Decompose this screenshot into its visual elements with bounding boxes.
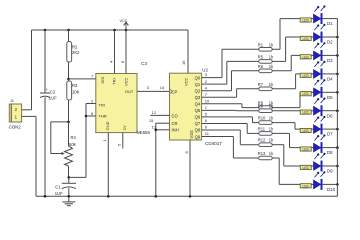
pin name GND inside 555	[105, 121, 110, 130]
LED D2 emission arrows	[314, 24, 325, 30]
label J1	[10, 99, 14, 103]
wire jog riser to LED row D1	[279, 19, 281, 50]
LED D10 diode symbol	[314, 179, 323, 189]
svg-text:C3: C3	[141, 61, 147, 66]
pin number 6	[91, 111, 94, 116]
wire connector pin 1 out	[22, 115, 36, 117]
wire 4017 VSS pin8 to ground rail	[189, 140, 191, 196]
pin number 1	[102, 139, 107, 142]
wire THR feedback horizontal	[69, 176, 86, 178]
svg-text:THR: THR	[99, 114, 107, 119]
svg-text:LED: LED	[302, 111, 309, 115]
wire LED row D10	[279, 183, 314, 185]
node junction C2 on ground rail	[44, 195, 47, 198]
label U2	[202, 68, 208, 73]
pin number 5	[205, 112, 208, 117]
wire C2 down to ground rail	[44, 97, 46, 196]
svg-text:VCC: VCC	[119, 19, 127, 23]
wire 555 pin 4 to VCC rail	[114, 30, 116, 74]
node junction 555 pin4 tap on VCC rail	[113, 29, 116, 32]
svg-text:LED: LED	[302, 37, 309, 41]
label D3	[327, 58, 333, 63]
wire resistor R1 to jog riser	[272, 48, 280, 50]
wire resistor R12 to jog riser	[272, 144, 284, 146]
svg-text:D1: D1	[327, 21, 333, 26]
wire LED row D7	[295, 128, 314, 130]
svg-text:LED: LED	[302, 148, 309, 152]
pin name INH inside 4017	[172, 128, 179, 133]
svg-text:CR: CR	[172, 121, 178, 126]
wire INH pin13	[156, 129, 170, 131]
label D7	[327, 132, 333, 137]
label R5 value 1k	[269, 54, 274, 59]
svg-text:Q5: Q5	[195, 108, 201, 113]
pin name OUT inside 555	[125, 89, 134, 94]
label R8 value 1k	[269, 101, 274, 106]
svg-text:D4: D4	[327, 77, 333, 82]
LED D6 emission arrows	[314, 98, 325, 104]
wire OUT pin3 to 4017 CP pin14	[137, 90, 170, 92]
resistor R2	[67, 42, 72, 63]
pin name Q4 inside 4017	[195, 102, 201, 107]
pin number 9	[205, 125, 208, 130]
LED D3 diode symbol	[314, 50, 323, 60]
label R13	[258, 151, 266, 156]
wire riser Q7 to resistor R11 line	[246, 123, 248, 133]
wire CR/INH tie down to ground rail	[155, 123, 157, 196]
label R7	[258, 82, 264, 87]
node junction C1 on ground rail	[68, 195, 71, 198]
svg-text:D2: D2	[327, 40, 333, 45]
node junction 555 pin8 tap on VCC rail	[125, 29, 128, 32]
counter U2 CD4017 body	[170, 73, 202, 140]
svg-text:R12: R12	[258, 138, 266, 143]
label CD4017	[205, 141, 222, 146]
wire jog riser to LED row D9	[283, 145, 285, 166]
wire jog riser to LED row D10	[278, 158, 280, 184]
LED D7 emission arrows	[314, 116, 325, 122]
svg-text:R3: R3	[72, 83, 78, 88]
op-amp timer U1 NE555 body	[96, 74, 137, 133]
wire LED D5 cathode to bus	[322, 91, 337, 93]
svg-text:D7: D7	[327, 132, 333, 137]
svg-text:16: 16	[181, 60, 186, 65]
label R2 value 2K2	[72, 50, 80, 55]
resistor R9	[259, 109, 272, 113]
svg-text:C1: C1	[55, 184, 61, 189]
wire into resistor R13	[233, 157, 258, 159]
label R12	[258, 138, 266, 143]
pin name Q8 inside 4017	[195, 128, 201, 133]
svg-text:OUT: OUT	[125, 89, 134, 94]
resistor R8	[259, 106, 272, 110]
node junction D9 on cathode bus	[336, 165, 339, 168]
LED D4 emission arrows	[314, 61, 325, 67]
node junction D2 on cathode bus	[336, 36, 339, 39]
connector J1 CON2	[9, 104, 21, 122]
svg-text:J1: J1	[10, 99, 14, 103]
wire riser Q3 to resistor R7 line	[236, 89, 238, 97]
svg-text:50k: 50k	[69, 142, 77, 147]
label R6 value 1k	[269, 64, 274, 69]
svg-text:D6: D6	[327, 113, 333, 118]
node junction 4017 VSS on ground rail	[189, 195, 192, 198]
svg-text:Q7: Q7	[195, 121, 201, 126]
svg-text:LED: LED	[302, 55, 309, 59]
node junction R3/R4/wiper loop	[67, 121, 70, 124]
wire into resistor R1	[222, 48, 259, 50]
wire riser Q6 to resistor R10 line	[252, 117, 254, 123]
pin name THR inside 555	[99, 114, 107, 119]
svg-text:Q3: Q3	[195, 95, 201, 100]
pin number 4	[205, 85, 208, 90]
pin number 8	[120, 60, 125, 63]
pin name Q2 inside 4017	[195, 88, 201, 93]
wire jog riser to LED row D4	[295, 74, 297, 89]
svg-text:R10: R10	[258, 116, 266, 121]
pin name Q1 inside 4017	[195, 82, 201, 87]
pin name CP inside 4017	[170, 89, 178, 94]
wire resistor R8 to jog riser	[272, 107, 300, 109]
wire into resistor R7	[237, 88, 259, 90]
node DIS junction R2/R3/pin7	[67, 78, 70, 81]
label D9	[327, 169, 333, 174]
svg-text:LED: LED	[302, 74, 309, 78]
wire riser Q2 to resistor R6 line	[231, 71, 233, 91]
pin name Q5 inside 4017	[195, 108, 201, 113]
pin name VSS inside 4017	[189, 130, 194, 139]
pin name CO inside 4017	[172, 113, 179, 118]
LED D8 body box	[300, 147, 311, 152]
wire resistor R5 to jog riser	[272, 60, 286, 62]
resistor R5	[259, 60, 272, 64]
node junction D8 on cathode bus	[336, 146, 339, 149]
resistor R10	[259, 121, 272, 125]
svg-text:LED: LED	[302, 19, 309, 23]
resistor R1	[259, 48, 272, 52]
pin number 8 of 4017	[184, 151, 189, 154]
wire into resistor R6	[232, 70, 259, 72]
wire R3 down to R4 top node	[68, 100, 70, 122]
pin name VCC inside 4017	[184, 77, 189, 86]
label C3 designator of NE555	[141, 61, 147, 66]
wire resistor R10 to jog riser	[272, 122, 295, 124]
LED D10 body box	[300, 184, 311, 189]
node junction 555 GND on ground rail	[107, 195, 110, 198]
wire R2 to DIS node	[68, 62, 70, 79]
wire LED row D2	[286, 36, 314, 38]
LED D5 emission arrows	[314, 79, 325, 85]
resistor R6	[259, 69, 272, 73]
LED D9 diode symbol	[314, 161, 323, 171]
node junction D10 on cathode bus	[336, 183, 339, 186]
wire LED row D3	[291, 54, 314, 56]
svg-text:LED: LED	[302, 166, 309, 170]
label R9 value 1k	[269, 104, 274, 109]
wire VCC rail down to connector pin 2	[31, 30, 33, 110]
svg-text:10K: 10K	[72, 89, 80, 94]
svg-text:D3: D3	[327, 58, 333, 63]
LED D8 emission arrows	[314, 134, 325, 140]
label R4	[71, 135, 77, 140]
wire 4017 Q7 output	[202, 122, 248, 124]
svg-text:TRI: TRI	[99, 102, 105, 107]
pin number 12	[152, 110, 157, 115]
wire 4017 Q9 output	[202, 136, 234, 138]
label D10	[327, 187, 336, 192]
capacitor C2 1UF	[40, 87, 50, 97]
svg-text:CD4017: CD4017	[205, 141, 222, 146]
LED D1 body box	[300, 18, 311, 23]
node junction D6 on cathode bus	[336, 109, 339, 112]
pin number 1	[205, 105, 208, 110]
node junction R4/C1/THR feedback	[68, 176, 71, 179]
label C1 value 1UF	[55, 191, 63, 196]
label R8	[258, 101, 264, 106]
svg-text:Q2: Q2	[195, 88, 201, 93]
svg-text:R7: R7	[258, 82, 264, 87]
wire resistor R9 straight to LED D6	[272, 110, 314, 112]
wire LED row D5	[300, 91, 314, 93]
wire 4017 Q8 output	[202, 129, 241, 131]
wire CR pin15	[156, 122, 170, 124]
label R7 value 1k	[269, 82, 274, 87]
wire jog riser to LED row D5	[299, 92, 301, 107]
wire DIS node down to R3	[68, 79, 70, 81]
wire LED D9 cathode to bus	[322, 165, 337, 167]
wire resistor R13 to jog riser	[272, 157, 279, 159]
label D4	[327, 77, 333, 82]
pin number 7	[205, 92, 208, 97]
wire THR feedback riser	[85, 104, 87, 178]
wire into resistor R8	[242, 107, 259, 109]
wire 4017 Q6 output	[202, 116, 253, 118]
wire jog riser to LED row D7	[294, 123, 296, 130]
wire TRI pin 2	[86, 103, 96, 105]
LED D2 diode symbol	[314, 32, 323, 42]
node junction 4017 CR-INH on ground rail	[155, 195, 158, 198]
svg-text:R6: R6	[258, 64, 264, 69]
wire 4017 Q4 output	[202, 103, 242, 105]
wire LED D3 cathode to bus	[322, 54, 337, 56]
wire ground bottom rail	[36, 195, 337, 197]
wire LED row D4	[296, 73, 314, 75]
wire 4017 pin16 to VCC rail	[187, 30, 189, 73]
svg-text:R2: R2	[72, 44, 78, 49]
wire resistor R7 to jog riser	[272, 88, 296, 90]
svg-text:C2: C2	[50, 90, 56, 95]
svg-text:D10: D10	[327, 187, 336, 192]
wire wiper loop left side	[50, 122, 52, 154]
wire CO pin12 stub	[150, 114, 169, 116]
label R5	[258, 54, 264, 59]
LED D2 body box	[300, 36, 311, 41]
label R10 value 1k	[269, 116, 274, 121]
node junction R2 tap on VCC rail	[67, 29, 70, 32]
svg-text:CO: CO	[172, 113, 179, 118]
label D2	[327, 40, 333, 45]
svg-text:D8: D8	[327, 150, 333, 155]
svg-text:LED: LED	[302, 129, 309, 133]
pin name Q3 inside 4017	[195, 95, 201, 100]
node junction D4 on cathode bus	[336, 73, 339, 76]
svg-text:LED: LED	[302, 184, 309, 188]
wire 555 pin 8 to VCC rail	[125, 30, 127, 74]
svg-text:R9: R9	[258, 104, 264, 109]
wire jog riser to LED row D2	[285, 37, 287, 61]
node junction TRI/THR tie	[85, 115, 88, 118]
wire wiper loop to wiper arrow	[51, 152, 65, 155]
pin name RES	[111, 78, 116, 84]
svg-text:R11: R11	[258, 126, 266, 131]
ground symbol	[62, 196, 75, 205]
svg-text:R5: R5	[258, 54, 264, 59]
svg-text:R4: R4	[71, 135, 77, 140]
label D8	[327, 150, 333, 155]
label D6	[327, 113, 333, 118]
label CON2	[9, 124, 22, 129]
label R1	[258, 42, 264, 47]
wire 4017 Q2 output	[202, 90, 232, 92]
wire LED row D9	[284, 165, 314, 167]
pin number 4	[109, 60, 114, 63]
label D5	[327, 95, 333, 100]
wire 555 pin 5 stub	[122, 133, 124, 149]
LED D4 diode symbol	[314, 69, 323, 79]
resistor R11	[259, 132, 272, 136]
svg-text:12: 12	[152, 110, 157, 115]
wire LED D7 cathode to bus	[322, 128, 337, 130]
pin name DIS	[100, 77, 105, 84]
wire 4017 Q0 output	[202, 77, 222, 79]
wire riser Q4 to resistor R8 line	[241, 104, 243, 108]
label NE555	[137, 130, 151, 135]
svg-text:R1: R1	[258, 42, 264, 47]
svg-text:2K2: 2K2	[72, 50, 80, 55]
wire resistor R11 to jog riser	[272, 132, 290, 134]
label R4 value 50k	[69, 142, 77, 147]
svg-text:D5: D5	[327, 95, 333, 100]
wire resistor R6 to jog riser	[272, 70, 291, 72]
wire LED D10 cathode to bus	[322, 183, 337, 185]
LED D9 emission arrows	[314, 153, 325, 159]
wire THR pin 6	[86, 115, 96, 117]
pin number 16	[181, 60, 186, 65]
label C2 value 1UF	[49, 96, 57, 101]
label D1	[327, 21, 333, 26]
label R3 value 10K	[72, 89, 80, 94]
wire into resistor R11	[247, 132, 259, 134]
wire into resistor R9	[237, 110, 259, 112]
wire cathode bus vertical	[336, 19, 338, 197]
label C2	[50, 90, 56, 95]
capacitor C1 1UF	[62, 177, 76, 196]
wire LED row D8	[290, 147, 314, 149]
label R9	[258, 104, 264, 109]
pin name VCC inside 555	[123, 77, 128, 86]
wire LED row D1	[280, 18, 314, 20]
wire jog riser to LED row D8	[289, 133, 291, 147]
wire R4 bottom lead	[68, 166, 70, 177]
pin number 13	[152, 125, 157, 130]
label R12 value 1k	[269, 138, 274, 143]
wire pin1 riser down to ground rail	[35, 116, 37, 196]
svg-text:10: 10	[205, 98, 210, 103]
pin number 10	[205, 98, 210, 103]
wire R4 top lead	[68, 122, 70, 146]
pin number 5	[117, 143, 122, 146]
wire LED D4 cathode to bus	[322, 73, 337, 75]
svg-text:Q8: Q8	[195, 128, 201, 133]
LED D3 body box	[300, 55, 311, 60]
svg-text:1UF: 1UF	[55, 191, 63, 196]
svg-text:R13: R13	[258, 151, 266, 156]
pin number 6	[205, 118, 208, 123]
LED D6 body box	[300, 110, 311, 115]
label R10	[258, 116, 266, 121]
resistor R7	[259, 87, 272, 91]
wire jog riser to LED row D3	[290, 55, 292, 70]
pin name Q9 inside 4017	[195, 134, 201, 139]
node junction D5 on cathode bus	[336, 91, 339, 94]
pin name Q0 inside 4017	[195, 75, 201, 80]
wire VCC top rail	[32, 29, 189, 31]
label R1 value 1k	[269, 42, 274, 47]
resistor R4 50k zigzag	[65, 146, 73, 166]
LED D7 diode symbol	[314, 124, 323, 134]
wire into resistor R10	[253, 122, 259, 124]
wire wiper loop top	[51, 121, 69, 123]
LED D5 body box	[300, 92, 311, 97]
svg-text:Q6: Q6	[195, 115, 201, 120]
wire riser Q0 to resistor R1 line	[221, 49, 223, 77]
resistor R12	[259, 143, 272, 147]
svg-text:VCC: VCC	[123, 77, 128, 86]
svg-text:VCC: VCC	[184, 77, 189, 86]
svg-text:LED: LED	[302, 92, 309, 96]
pin name Q6 inside 4017	[195, 115, 201, 120]
LED D3 emission arrows	[314, 42, 325, 48]
LED D9 body box	[300, 165, 311, 170]
wire LED D6 cathode to bus	[322, 110, 337, 112]
pin number 7	[91, 74, 94, 79]
pin name TRI inside 555	[99, 102, 105, 107]
LED D1 emission arrows	[314, 5, 325, 11]
wire riser Q9 to resistor R13 line	[232, 137, 234, 158]
svg-text:15: 15	[149, 118, 154, 123]
svg-text:CV: CV	[123, 125, 127, 131]
svg-text:TRI: TRI	[111, 78, 116, 84]
label C1	[55, 184, 61, 189]
label R6	[258, 64, 264, 69]
node junction C2 tap on VCC rail	[44, 29, 47, 32]
svg-text:NE555: NE555	[137, 130, 151, 135]
wire 4017 Q5 output	[202, 109, 237, 111]
node junction D3 on cathode bus	[336, 54, 339, 57]
wire 555 pin 1 GND to rail	[107, 133, 109, 197]
svg-text:D9: D9	[327, 169, 333, 174]
label R11 value 1k	[269, 126, 274, 131]
pin number 2	[91, 98, 94, 103]
svg-text:INH: INH	[172, 128, 179, 133]
pin number 15	[149, 118, 154, 123]
label R2	[72, 44, 78, 49]
node junction INH on CR riser	[155, 129, 158, 132]
node junction D7 on cathode bus	[336, 128, 339, 131]
wire VCC rail down to C2	[44, 30, 46, 93]
LED D6 diode symbol	[314, 106, 323, 116]
wire riser Q1 to resistor R5 line	[226, 61, 228, 84]
